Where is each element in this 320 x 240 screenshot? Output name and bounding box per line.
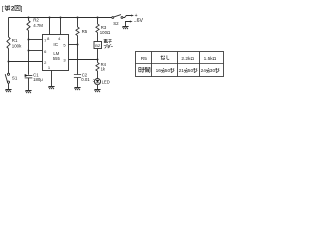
svg-text:5: 5 (63, 42, 66, 47)
label battery - (134, 19, 137, 25)
resistor R3 (96, 24, 99, 33)
wire rail to R2 (28, 18, 30, 21)
wire pin4 (60, 18, 62, 35)
svg-text:]: ] (21, 5, 23, 12)
svg-text:0.01: 0.01 (81, 77, 90, 82)
node rail tap R2 (28, 17, 30, 19)
wire junction down to C2 (77, 45, 79, 75)
node pin7 junction (28, 39, 30, 41)
table cell 24分30秒 (201, 68, 216, 74)
table R5 vs time (136, 52, 224, 77)
wire rail to R1 (8, 18, 10, 38)
label IC LM555 and pin numbers (44, 36, 66, 70)
capacitor C2 0.01 (74, 75, 81, 78)
svg-text:1k: 1k (101, 67, 106, 72)
wire S2 to battery plus arrow (123, 16, 132, 18)
table header 2.2kOhm (181, 56, 194, 62)
node trigger junction R1/S1/pin2 (8, 61, 10, 63)
wire junction to R4 (97, 60, 99, 63)
resistor R5 (76, 27, 79, 36)
wire rail to R3 (97, 18, 99, 25)
switch S1 (7, 73, 9, 75)
ground below LED (94, 89, 100, 91)
svg-text:50: 50 (165, 68, 171, 74)
ground below S1 (5, 89, 11, 91)
svg-text:16: 16 (156, 68, 162, 74)
label R2 4.7M (33, 18, 43, 28)
resistor R4 (96, 63, 99, 72)
label S2 (113, 21, 119, 26)
svg-text:2: 2 (44, 60, 47, 65)
label S1 (12, 76, 18, 81)
op-amp/timer IC LM555 box (43, 35, 69, 71)
wire R5 to pin5 node (77, 36, 79, 45)
kanji zu 図 (15, 5, 20, 10)
label R5 (82, 29, 88, 34)
table header R5 (141, 56, 147, 62)
node pin6 junction (28, 50, 30, 52)
label battery + (135, 13, 138, 19)
svg-text:1.5kΩ: 1.5kΩ (204, 56, 217, 62)
svg-text:BZ: BZ (95, 43, 101, 48)
label C2 0.01 (81, 73, 90, 83)
svg-text:4: 4 (58, 36, 61, 41)
LED (94, 79, 100, 85)
wire R2/pins6,7 bus down to C1 (28, 31, 30, 75)
table cell jikan 時間 (139, 67, 150, 72)
buzzer BZ box (94, 42, 102, 49)
ground below C1 (25, 90, 31, 92)
svg-text:8: 8 (47, 36, 50, 41)
svg-text:IC: IC (53, 42, 58, 47)
wire R1 to S1 (8, 49, 10, 74)
svg-text:555: 555 (53, 56, 61, 61)
svg-text:6: 6 (44, 49, 47, 54)
table cell 21分50秒 (179, 68, 194, 74)
svg-text:2.2kΩ: 2.2kΩ (181, 56, 194, 62)
svg-text:24: 24 (201, 68, 207, 74)
ground battery minus (122, 26, 128, 28)
label LED (102, 79, 110, 84)
table cell 16分50秒 (156, 68, 171, 74)
wire Vcc top rail (9, 17, 112, 19)
node rail tap pin4 (60, 17, 62, 19)
ground below pin1 (48, 86, 54, 88)
wire pin3 output row (69, 59, 98, 61)
wire pin1 to ground (51, 71, 53, 87)
wire LED to ground (97, 85, 99, 90)
svg-text:21: 21 (179, 68, 185, 74)
ground below C2 (74, 87, 80, 89)
svg-text:R5: R5 (82, 29, 88, 34)
wire buzzer to pin3 row (97, 49, 99, 60)
svg-text:S1: S1 (12, 76, 18, 81)
switch S2 (112, 17, 114, 19)
table header 1.5kOhm (204, 56, 217, 62)
label R1 100k (12, 38, 22, 48)
kanji dai 第 (5, 5, 10, 11)
label denshi 電子 (electronic) (104, 39, 112, 43)
svg-text:2: 2 (11, 5, 15, 12)
node rail tap R3 (97, 17, 99, 19)
wire R4 to LED (97, 71, 99, 79)
wire pin5 stub (69, 44, 78, 46)
label battery 6V (137, 18, 144, 24)
label R4 1k (101, 62, 107, 71)
label R3 100ohm (100, 25, 111, 35)
svg-text:1: 1 (48, 65, 51, 70)
svg-text:30: 30 (210, 68, 216, 74)
table header nashi なし (161, 55, 170, 60)
svg-text:3: 3 (63, 57, 66, 62)
node rail tap pin8 (49, 17, 51, 19)
svg-text:4.7M: 4.7M (33, 23, 43, 28)
svg-text:−: − (134, 19, 137, 25)
label C1 180u (33, 73, 43, 83)
svg-text:100k: 100k (12, 43, 22, 48)
node pin5/R5/C2 junction (77, 44, 79, 46)
svg-text:S2: S2 (113, 21, 119, 26)
svg-text:R5: R5 (141, 56, 147, 62)
wire pin8 (49, 18, 51, 35)
svg-text:50: 50 (188, 68, 194, 74)
wire R3 to buzzer (97, 33, 99, 42)
wire pin2 trigger row (9, 61, 43, 63)
label buzzer ブザー (katakana) (104, 44, 113, 48)
figure title [第2図] (2, 5, 23, 12)
wire ground to battery minus arrow (126, 22, 131, 27)
svg-text:[: [ (2, 5, 4, 12)
svg-text:100Ω: 100Ω (100, 30, 111, 35)
wire pin6 stub (29, 50, 43, 52)
wire pin7 stub (29, 39, 43, 41)
wire rail to R5 (77, 18, 79, 28)
resistor R2 (27, 21, 30, 31)
node rail tap R5 (77, 17, 79, 19)
node pin3/BZ/R4 junction (97, 59, 99, 61)
resistor R1 (7, 37, 10, 49)
svg-text:LED: LED (102, 79, 110, 84)
capacitor C1 180u electrolytic (25, 75, 33, 77)
svg-text:180μ: 180μ (33, 77, 43, 82)
wire S1 to ground (8, 83, 10, 89)
svg-text:6V: 6V (137, 18, 144, 24)
